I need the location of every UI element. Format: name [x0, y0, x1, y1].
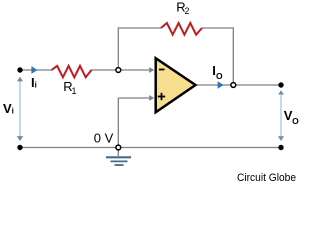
svg-text:Circuit Globe: Circuit Globe: [237, 172, 296, 184]
svg-text:0 V: 0 V: [94, 131, 114, 146]
